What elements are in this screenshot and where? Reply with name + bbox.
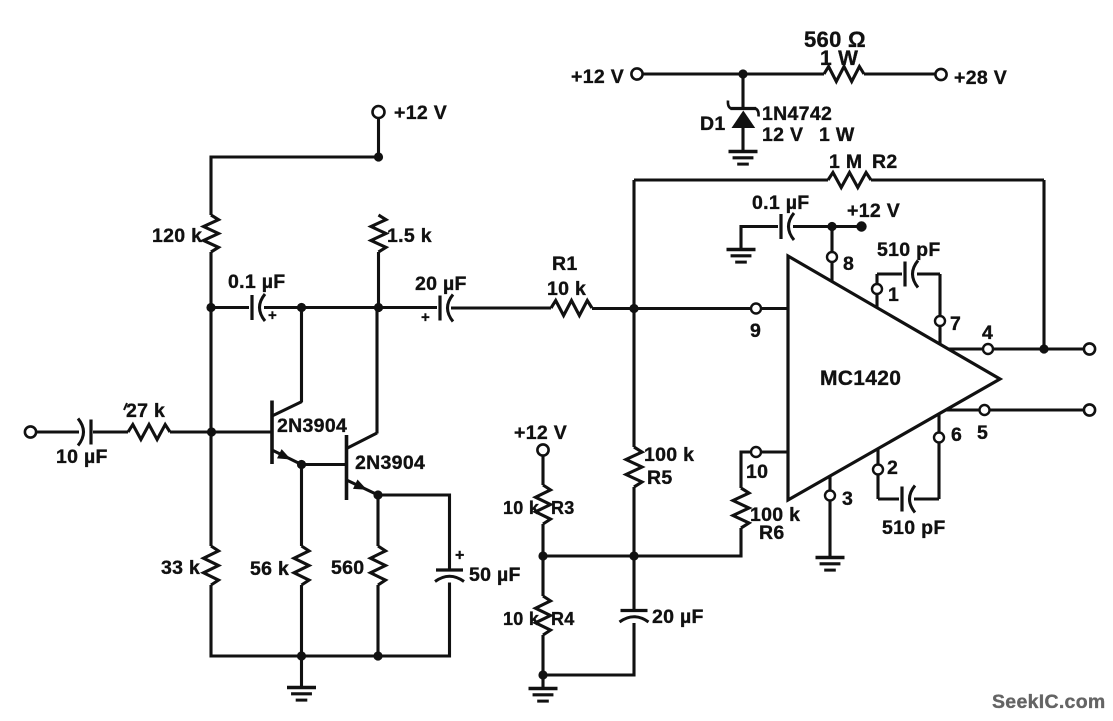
svg-text:120 k: 120 k (152, 225, 202, 247)
resistor 1.5k (371, 215, 386, 252)
svg-text:5: 5 (977, 422, 988, 444)
ground (bypass) (727, 248, 756, 251)
pin 10 (751, 447, 761, 457)
wire Q1 base (212, 430, 271, 433)
svg-text:20 µF: 20 µF (415, 273, 467, 295)
wire Q1 collector (300, 308, 303, 403)
terminal input (25, 426, 36, 437)
node R1/R2/R5 (629, 304, 638, 313)
capacitor 20uF coupling (438, 296, 441, 321)
svg-text:4: 4 (982, 322, 993, 344)
wire divider rail (543, 554, 743, 557)
svg-text:10 k: 10 k (503, 498, 540, 518)
wire 56k to bottom rail (300, 585, 303, 658)
svg-text:100 k: 100 k (644, 444, 694, 466)
svg-text:+12 V: +12 V (514, 422, 567, 444)
svg-text:R5: R5 (647, 467, 673, 489)
wire top rail (211, 155, 379, 158)
svg-text:33 k: 33 k (161, 557, 200, 579)
capacitor 20uF (divider) (632, 555, 635, 610)
node pin8 supply (827, 222, 836, 231)
wire node to 0.1uF (211, 306, 249, 309)
ground (zener) (729, 150, 758, 153)
svg-text:1: 1 (888, 284, 899, 306)
capacitor 0.1uF bypass (779, 214, 782, 239)
svg-text:1 W: 1 W (819, 124, 855, 146)
wire R1 to pin 9 (592, 307, 788, 310)
node 560/rail (373, 651, 382, 660)
svg-text:R2: R2 (872, 151, 898, 173)
resistor 560 ohm 1W (824, 67, 864, 82)
node base of Q1 (207, 427, 216, 436)
wire 1.5k to node (377, 252, 380, 308)
svg-text:+: + (421, 309, 430, 326)
terminal output (top) (1084, 343, 1095, 354)
wire pin 1 lead (875, 274, 878, 308)
svg-text:50 µF: 50 µF (469, 564, 521, 586)
wire output pin 4 (948, 347, 1084, 350)
svg-text:1 M: 1 M (829, 151, 862, 173)
wire left column mid (209, 308, 212, 433)
wire pin 6 lead (937, 414, 940, 499)
terminal output (bottom) (1084, 404, 1095, 415)
transistor Q1 2N3904 (270, 401, 274, 465)
svg-text:12 V: 12 V (762, 124, 803, 146)
resistor R1 10k (551, 301, 592, 316)
svg-text:10 µF: 10 µF (56, 446, 108, 468)
transistor Q2 2N3904 (345, 435, 349, 500)
wire bottom rail (210, 654, 452, 657)
pin 3 (825, 491, 835, 501)
node Q2 emitter (373, 490, 382, 499)
wire D1 cathode to ground (741, 128, 744, 152)
wire Q1 emitter to Q2 base (302, 463, 347, 466)
terminal +28 V (935, 69, 946, 80)
capacitor 510pF (1-7) (877, 272, 902, 275)
resistor 33k (204, 546, 219, 585)
svg-text:R1: R1 (552, 253, 578, 275)
pin 8 (827, 252, 837, 262)
svg-text:0.1 µF: 0.1 µF (228, 271, 285, 293)
svg-text:0.1 µF: 0.1 µF (752, 192, 809, 214)
wire R2 left (634, 178, 828, 181)
svg-text:56 k: 56 k (250, 558, 289, 580)
svg-text:1N4742: 1N4742 (762, 103, 832, 125)
terminal +12 V (supply) (631, 68, 642, 79)
wire 50uF top lead (448, 494, 451, 571)
wire output pin 5 (946, 408, 1084, 411)
wire D1 anode (741, 74, 744, 108)
svg-text:R4: R4 (551, 609, 575, 629)
wire 560 to bottom rail (376, 585, 379, 658)
capacitor C-in 10uF (78, 419, 84, 446)
svg-text:9: 9 (750, 320, 761, 342)
pin 4 (983, 344, 993, 354)
wire pin 7 lead (938, 274, 941, 345)
node R3/R4 (538, 551, 547, 560)
pin 1 (872, 284, 882, 294)
wire Q2 collector (375, 308, 378, 434)
wire pin 2 lead (876, 449, 879, 499)
wire node to 20uF (379, 306, 438, 309)
svg-text:R6: R6 (759, 522, 785, 544)
node Q1 collector tap (297, 303, 306, 312)
diode D1 zener (731, 107, 757, 110)
wire R4 to ground node (541, 635, 544, 675)
wire left column to 33k (209, 432, 212, 546)
wire +12V to R3 (541, 456, 544, 485)
wire 560ohm to +28V (864, 72, 936, 75)
wire 120k to node (209, 252, 212, 308)
svg-text:+12 V: +12 V (571, 66, 624, 88)
wire 10uF to 27k (93, 430, 128, 433)
wire R2 to input node (632, 180, 635, 309)
node 1.5k/20uF/collector (374, 303, 383, 312)
node 120k/0.1uF (206, 303, 215, 312)
wire R5 to rail (632, 487, 635, 558)
svg-text:+12 V: +12 V (847, 200, 900, 222)
capacitor 50uF (436, 568, 463, 571)
svg-text:2: 2 (887, 457, 898, 479)
resistor R4 10k (536, 596, 551, 635)
resistor 120k (204, 215, 219, 252)
op-amp U1 MC1420 (788, 256, 1000, 500)
node R5/rail (629, 551, 638, 560)
svg-text:2N3904: 2N3904 (277, 415, 347, 437)
wire Q2 emitter to 50uF (378, 493, 451, 496)
svg-text:+28 V: +28 V (954, 67, 1007, 89)
wire 50uF bottom lead (448, 583, 451, 658)
node feedback/output (1039, 344, 1048, 353)
capacitor 510pF (2-6) (878, 497, 899, 500)
wire bypass cap to node (793, 225, 857, 228)
resistor R5 100k (626, 447, 642, 487)
svg-text:1.5 k: 1.5 k (387, 225, 432, 247)
pin 2 (873, 465, 883, 475)
wire input to 10uF (36, 430, 79, 433)
wire pin 9 segment (751, 308, 761, 310)
node R4 ground (538, 670, 547, 679)
ground (preamp) (300, 657, 303, 688)
wire pin 8 lead (830, 227, 833, 282)
node Q1 emitter (297, 460, 306, 469)
node rail top of 1.5k (374, 152, 383, 161)
svg-text:27 k: 27 k (126, 400, 165, 422)
svg-text:+: + (455, 547, 465, 564)
wire pin 10 lead (741, 450, 788, 453)
svg-text:+12 V: +12 V (394, 102, 447, 124)
resistor R3 10k (536, 485, 551, 524)
wire ground rail right (543, 673, 636, 676)
wire R6 to rail (739, 528, 742, 558)
resistor R2 1M (828, 173, 871, 188)
wire pin 3 lead (828, 477, 831, 559)
svg-text:8: 8 (843, 253, 854, 275)
wire left column to 120k (209, 156, 212, 216)
wire node to R5 (632, 309, 635, 448)
wire 20uF to R1 (451, 306, 551, 309)
terminal +12 V (preamp) (373, 106, 385, 118)
wire 0.1uF to collector node (264, 306, 379, 309)
svg-text:6: 6 (951, 424, 962, 446)
resistor 27k (128, 425, 170, 440)
ground (divider) (541, 676, 544, 689)
svg-text:20 µF: 20 µF (652, 606, 704, 628)
svg-text:MC1420: MC1420 (820, 367, 901, 390)
ground (pin 3) (816, 556, 845, 559)
pin 5 (980, 405, 990, 415)
svg-text:10 k: 10 k (503, 609, 540, 629)
wire Q2 emitter to 560 (376, 495, 379, 546)
svg-text:SeekIC.com: SeekIC.com (992, 691, 1106, 713)
pin 9 (751, 304, 761, 314)
wire bypass ground lead (739, 225, 742, 251)
svg-text:510 pF: 510 pF (882, 517, 946, 539)
wire R2 right (871, 178, 1044, 181)
wire +12V drop to rail (377, 118, 380, 158)
wire R3 to rail (541, 524, 544, 556)
terminal +12 V (divider) (537, 444, 548, 455)
svg-text:1 W: 1 W (820, 47, 858, 70)
resistor R6 100k (733, 488, 749, 528)
svg-text:+: + (268, 307, 277, 324)
svg-text:2N3904: 2N3904 (355, 452, 425, 474)
svg-text:3: 3 (842, 488, 853, 510)
svg-text:10 k: 10 k (547, 278, 586, 300)
pin 7 (935, 316, 945, 326)
wire rail to R4 (541, 556, 544, 596)
wire +12V to 560ohm (643, 72, 824, 75)
svg-text:510 pF: 510 pF (877, 239, 941, 261)
svg-text:10: 10 (746, 461, 768, 483)
svg-text:D1: D1 (700, 113, 726, 135)
node D1 tap (738, 69, 747, 78)
terminal +12 V (op amp) (856, 221, 866, 231)
svg-text:R3: R3 (551, 498, 575, 518)
wire 33k to bottom rail (209, 585, 212, 658)
svg-text:560: 560 (331, 557, 364, 579)
capacitor 0.1uF interstage (250, 295, 253, 320)
resistor 560 (371, 546, 386, 585)
node 56k/ground rail (297, 651, 306, 660)
svg-text:7: 7 (950, 313, 961, 335)
resistor 56k (294, 546, 309, 585)
wire pin10 to R6 (739, 451, 742, 489)
wire 27k to base node (170, 430, 212, 433)
pin 6 (934, 433, 944, 443)
wire Q1 emitter to 56k (300, 465, 303, 547)
wire R2 to output node (1042, 180, 1045, 349)
